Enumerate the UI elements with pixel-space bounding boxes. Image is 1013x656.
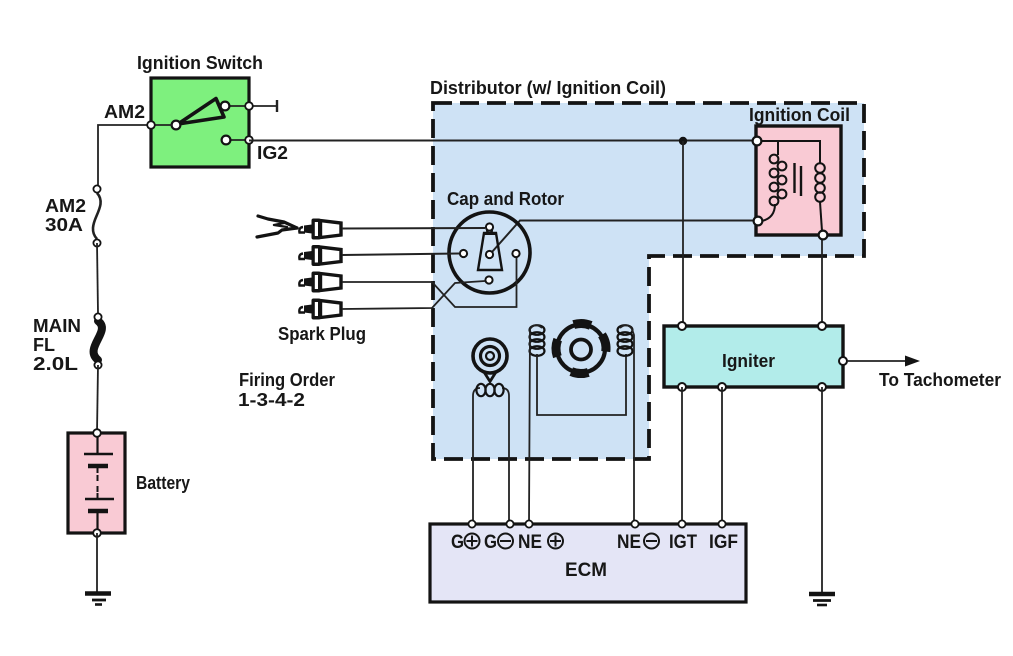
igniter [664, 322, 847, 391]
svg-text:Firing Order: Firing Order [239, 370, 335, 390]
wire igniter to tachometer (arrow) [847, 356, 920, 367]
svg-text:Igniter: Igniter [722, 351, 775, 371]
wire AM2 from switch to fuse [98, 125, 151, 186]
rotor body [478, 233, 502, 270]
AM2 terminal [155, 124, 172, 126]
wire battery to ground [96, 533, 98, 593]
svg-text:IGF: IGF [709, 532, 738, 553]
svg-text:NE: NE [617, 532, 641, 553]
svg-text:Spark Plug: Spark Plug [278, 324, 366, 344]
svg-text:G: G [451, 532, 464, 553]
wire junction to igniter [682, 141, 684, 326]
wire igniter to ECM IGT [681, 387, 683, 523]
node junction on IG2 wire [679, 137, 687, 145]
svg-text:To Tachometer: To Tachometer [879, 370, 1001, 390]
spark symbol [257, 216, 297, 237]
wire plug4 to cap bottom (crossover) [342, 281, 485, 309]
svg-text:AM2: AM2 [104, 102, 145, 122]
svg-text:30A: 30A [45, 215, 83, 235]
svg-text:1-3-4-2: 1-3-4-2 [238, 390, 305, 410]
wire fuse to fusible link [97, 243, 98, 313]
svg-text:IG2: IG2 [257, 143, 288, 163]
svg-text:ECM: ECM [565, 560, 607, 581]
wire plug2 to cap left [342, 254, 459, 256]
ground (battery) [85, 594, 111, 605]
svg-text:Distributor (w/ Ignition Coil): Distributor (w/ Ignition Coil) [430, 78, 666, 98]
upper contact to unused terminal [229, 105, 276, 107]
secondary winding [815, 163, 825, 202]
ignition switch [147, 78, 277, 167]
wire coil secondary to rotor [492, 221, 757, 253]
wire igniter to ground [821, 387, 823, 594]
wire NE bracket [537, 354, 626, 415]
pickup coil NE left [529, 325, 545, 523]
pickup coil NE right [618, 325, 635, 523]
spark plug 2 [299, 245, 341, 266]
internal top rail [759, 141, 820, 163]
ground (igniter) [809, 594, 835, 605]
svg-text:2.0L: 2.0L [33, 354, 78, 374]
svg-text:AM2: AM2 [45, 196, 86, 216]
svg-text:FL: FL [33, 335, 55, 355]
pivot contact [172, 121, 181, 130]
svg-text:IGT: IGT [669, 532, 697, 553]
IG2 contact [226, 139, 249, 141]
ignition coil [753, 126, 841, 239]
wire IG2 to ignition coil [249, 140, 757, 142]
spark plug 4 [299, 299, 341, 320]
ECM [430, 520, 746, 602]
pickup coil G [473, 339, 509, 523]
svg-text:Cap and Rotor: Cap and Rotor [447, 189, 564, 209]
svg-text:Ignition Switch: Ignition Switch [137, 53, 263, 73]
wire plug3 to cap right (crossover) [342, 258, 517, 307]
fuse AM2 30A [93, 185, 101, 246]
wire plug1 to cap center [342, 227, 485, 230]
battery [68, 429, 125, 537]
wire coil to igniter [821, 235, 823, 326]
spark plug 3 [299, 272, 341, 293]
primary winding [770, 155, 787, 206]
coil terminals [753, 137, 762, 146]
svg-text:G: G [484, 532, 497, 553]
wire igniter to ECM IGF [721, 387, 723, 523]
spark plug 1 [299, 219, 341, 240]
core [793, 163, 795, 193]
svg-text:MAIN: MAIN [33, 316, 81, 336]
svg-text:Ignition Coil: Ignition Coil [749, 105, 850, 125]
svg-text:NE: NE [518, 532, 542, 553]
cap and rotor [449, 212, 530, 293]
wire fusible link to battery [97, 365, 98, 433]
signal rotor [552, 319, 611, 378]
cap terminals [460, 250, 467, 257]
fusible link MAIN FL 2.0L [94, 313, 102, 368]
switch blade [178, 99, 224, 125]
svg-text:Battery: Battery [136, 473, 190, 493]
distributor dashed enclosure (blue region) [433, 103, 864, 459]
